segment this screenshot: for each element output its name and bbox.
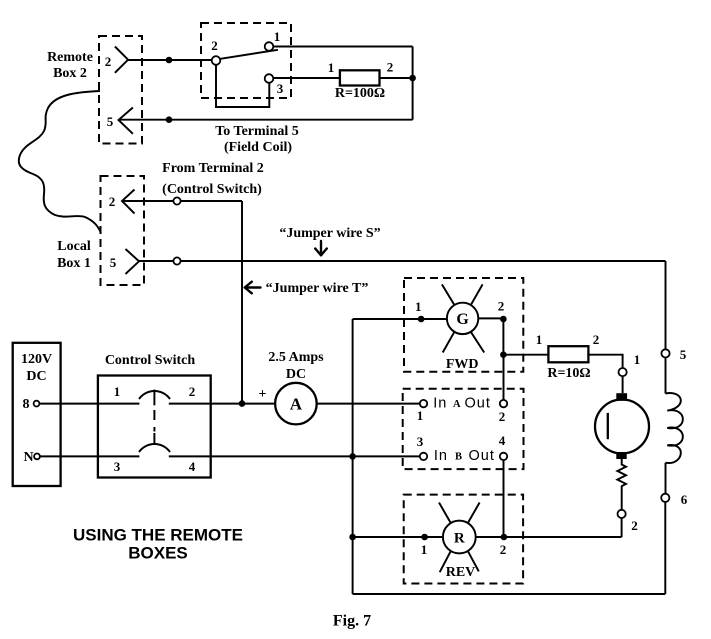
wire terminal N to bottom contact [40,455,139,457]
wire terminal6 to bottom rail [664,502,666,594]
svg-text:4: 4 [189,459,196,474]
svg-text:2: 2 [387,60,394,75]
Local Box 1 dashed enclosure [101,176,145,285]
interconnect cable squiggle between boxes [19,91,101,233]
svg-text:DC: DC [286,367,306,382]
svg-text:R: R [454,531,465,547]
svg-text:A: A [453,399,461,410]
svg-text:1: 1 [536,332,543,347]
wire coil to terminal 6 [665,463,667,494]
wire resistor R1 to junction [380,77,413,79]
svg-text:Box 2: Box 2 [53,66,87,81]
svg-text:N: N [23,450,33,465]
field coil L1 [666,393,683,463]
lamp R circle [443,521,476,554]
svg-text:1: 1 [421,542,428,557]
node tap to R10 [500,351,507,358]
svg-text:BOXES: BOXES [128,544,188,563]
svg-text:Out: Out [469,448,495,464]
svg-text:A: A [290,395,303,414]
wire FWD pin2 down to tap node [502,319,504,355]
svg-text:5: 5 [107,114,114,129]
selector switch dashed enclosure [201,23,291,98]
lamp G rays [442,284,484,352]
svg-text:In: In [434,448,448,464]
splice circle on Local2 wire [173,197,180,204]
wire contact to pin2 side [169,403,242,405]
svg-text:2: 2 [189,384,196,399]
top contact stem [153,390,155,406]
motor bottom brush square [616,452,626,459]
wire R to motor bottom [476,536,622,538]
bottom rail wire [353,593,666,595]
splice circle on Local5 wire [173,257,180,264]
svg-text:1: 1 [328,60,335,75]
node FWD pin1 [418,316,425,323]
wire terminal5 to coil [665,358,667,394]
svg-text:4: 4 [499,433,506,448]
In A terminal circle [420,400,427,407]
wire FWD pin1 to left loop [353,318,447,320]
wire tap node to R10 [503,354,548,356]
svg-text:2: 2 [500,542,507,557]
svg-text:2.5 Amps: 2.5 Amps [268,350,324,365]
junction splice dot on terminal2 wire [166,57,173,64]
wire bottom contact to In B [169,455,420,457]
junction splice dot on terminal5 wire [166,116,173,123]
wire terminal 8 to contact gap [39,403,139,405]
bottom contact stem [153,433,155,444]
svg-text:“Jumper wire T”: “Jumper wire T” [266,281,369,296]
Remote Box 2 dashed enclosure [99,36,142,144]
left arrow to jumper T [245,282,261,294]
wire jumper T vertical [241,201,243,404]
resistor R2 body R=10 ohm [548,346,588,362]
svg-text:G: G [456,311,469,328]
field terminal 6 circle [661,494,669,502]
wire contact1 to top-right corner [273,46,412,48]
terminal 8 circle [34,401,40,407]
svg-text:FWD: FWD [446,357,479,372]
svg-text:“Jumper wire S”: “Jumper wire S” [279,226,380,241]
wire ammeter to In A [317,403,420,405]
node FWD pin2 [500,316,507,323]
svg-text:Remote: Remote [47,50,93,65]
node junction of R100 with drop wire [409,75,416,82]
wire right vertical drop [412,47,414,120]
resistor R1 body R=100 ohm [340,70,380,85]
selector switch contact 1 [265,42,274,51]
motor armature M1 [595,400,649,454]
selector switch blade from 2 toward 1 [220,50,278,59]
node REV pin1 [421,534,428,541]
svg-text:2: 2 [593,332,600,347]
Local Box 1 terminal 5 connector symbol [126,249,140,274]
FWD relay dashed enclosure [404,278,523,372]
svg-text:In: In [433,396,447,412]
node junction left loop with REV row [349,534,356,541]
wire terminal2 to selector switch [128,59,212,61]
lamp R rays [439,503,480,573]
node junction jumperT meets ammeter row [239,400,246,407]
motor terminal 2 circle [618,510,626,518]
Out B terminal circle pin 4 [500,453,507,460]
left loop vertical wire [352,319,354,594]
svg-text:+: + [259,387,267,402]
Control Switch box [98,376,211,478]
svg-text:1: 1 [417,408,424,423]
Remote Box 2 terminal 5 connector symbol [119,108,133,134]
Remote Box 2 terminal 2 connector symbol [115,47,128,73]
svg-text:Out: Out [465,396,491,412]
svg-text:Box 1: Box 1 [57,256,91,271]
svg-text:R=10Ω: R=10Ω [547,366,590,381]
svg-text:1: 1 [415,299,422,314]
wire U-link contact2 bottom to contact3 bottom [216,65,269,107]
svg-text:3: 3 [114,459,121,474]
svg-text:From Terminal 2: From Terminal 2 [162,161,264,176]
wire G to pin2 [478,317,503,319]
wire motor terminal2 down to REV row [621,518,623,537]
terminal N circle [34,454,40,460]
svg-text:2: 2 [109,194,116,209]
Out A terminal circle pin 2 [500,400,507,407]
node junction N wire with left loop vertical [349,453,356,460]
svg-text:Local: Local [57,239,91,254]
wire junction to ammeter [242,403,275,405]
wire Out A up to tap node [503,355,505,400]
A jumper block dashed enclosure [403,389,524,469]
svg-text:3: 3 [417,434,424,449]
svg-text:1: 1 [274,29,281,44]
right rail vertical top [665,261,667,349]
svg-text:DC: DC [26,369,46,384]
svg-text:2: 2 [631,518,638,533]
svg-text:To Terminal 5: To Terminal 5 [215,124,299,139]
motor terminal 1 circle [619,368,627,376]
svg-text:B: B [455,452,462,463]
svg-text:1: 1 [114,384,121,399]
selector switch contact 2 [212,56,221,65]
wire REV row horizontal [353,536,443,538]
mechanical linkage dashed [153,410,155,432]
motor series resistance zigzag [617,459,626,510]
svg-text:(Field Coil): (Field Coil) [224,140,292,155]
svg-text:5: 5 [680,347,687,362]
svg-text:6: 6 [681,492,688,507]
svg-text:Control Switch: Control Switch [105,353,196,368]
lamp G circle [447,303,478,334]
ammeter A1 circle [275,383,317,425]
svg-text:3: 3 [277,81,284,96]
In B terminal circle [420,453,427,460]
svg-text:Fig. 7: Fig. 7 [333,613,371,630]
svg-text:8: 8 [23,397,30,412]
selector switch contact 3 [265,74,274,83]
wire Out B down to REV pin2 [503,460,505,537]
svg-text:1: 1 [634,352,641,367]
svg-text:2: 2 [105,54,112,69]
svg-text:REV: REV [446,565,476,580]
bottom contact arc [139,444,170,452]
svg-text:USING THE REMOTE: USING THE REMOTE [73,526,243,545]
svg-text:2: 2 [498,299,505,314]
wire motor terminal1 to top square [622,376,624,393]
120V DC source box [13,343,61,486]
wire Jumper S horizontal run [139,260,666,262]
REV relay dashed enclosure [404,495,523,584]
node REV pin2 [501,534,508,541]
Local Box 1 terminal 2 connector symbol [122,190,135,214]
field terminal 5 circle [661,349,669,357]
svg-text:2: 2 [211,38,218,53]
wire contact3 to resistor R100 [273,77,340,79]
motor brush bar [607,413,609,439]
svg-text:2: 2 [499,409,506,424]
wire Local2 to vertical jumper T [122,200,242,202]
down arrow to jumper S [315,241,327,255]
top contact arc [139,391,170,399]
wire To Terminal 5 horizontal run [119,119,413,121]
wire R10 to motor terminal 1 [588,355,622,368]
svg-text:5: 5 [110,255,117,270]
motor top brush square [616,393,627,401]
svg-text:R=100Ω: R=100Ω [335,86,385,101]
svg-text:(Control Switch): (Control Switch) [162,182,262,197]
svg-text:120V: 120V [21,352,52,367]
